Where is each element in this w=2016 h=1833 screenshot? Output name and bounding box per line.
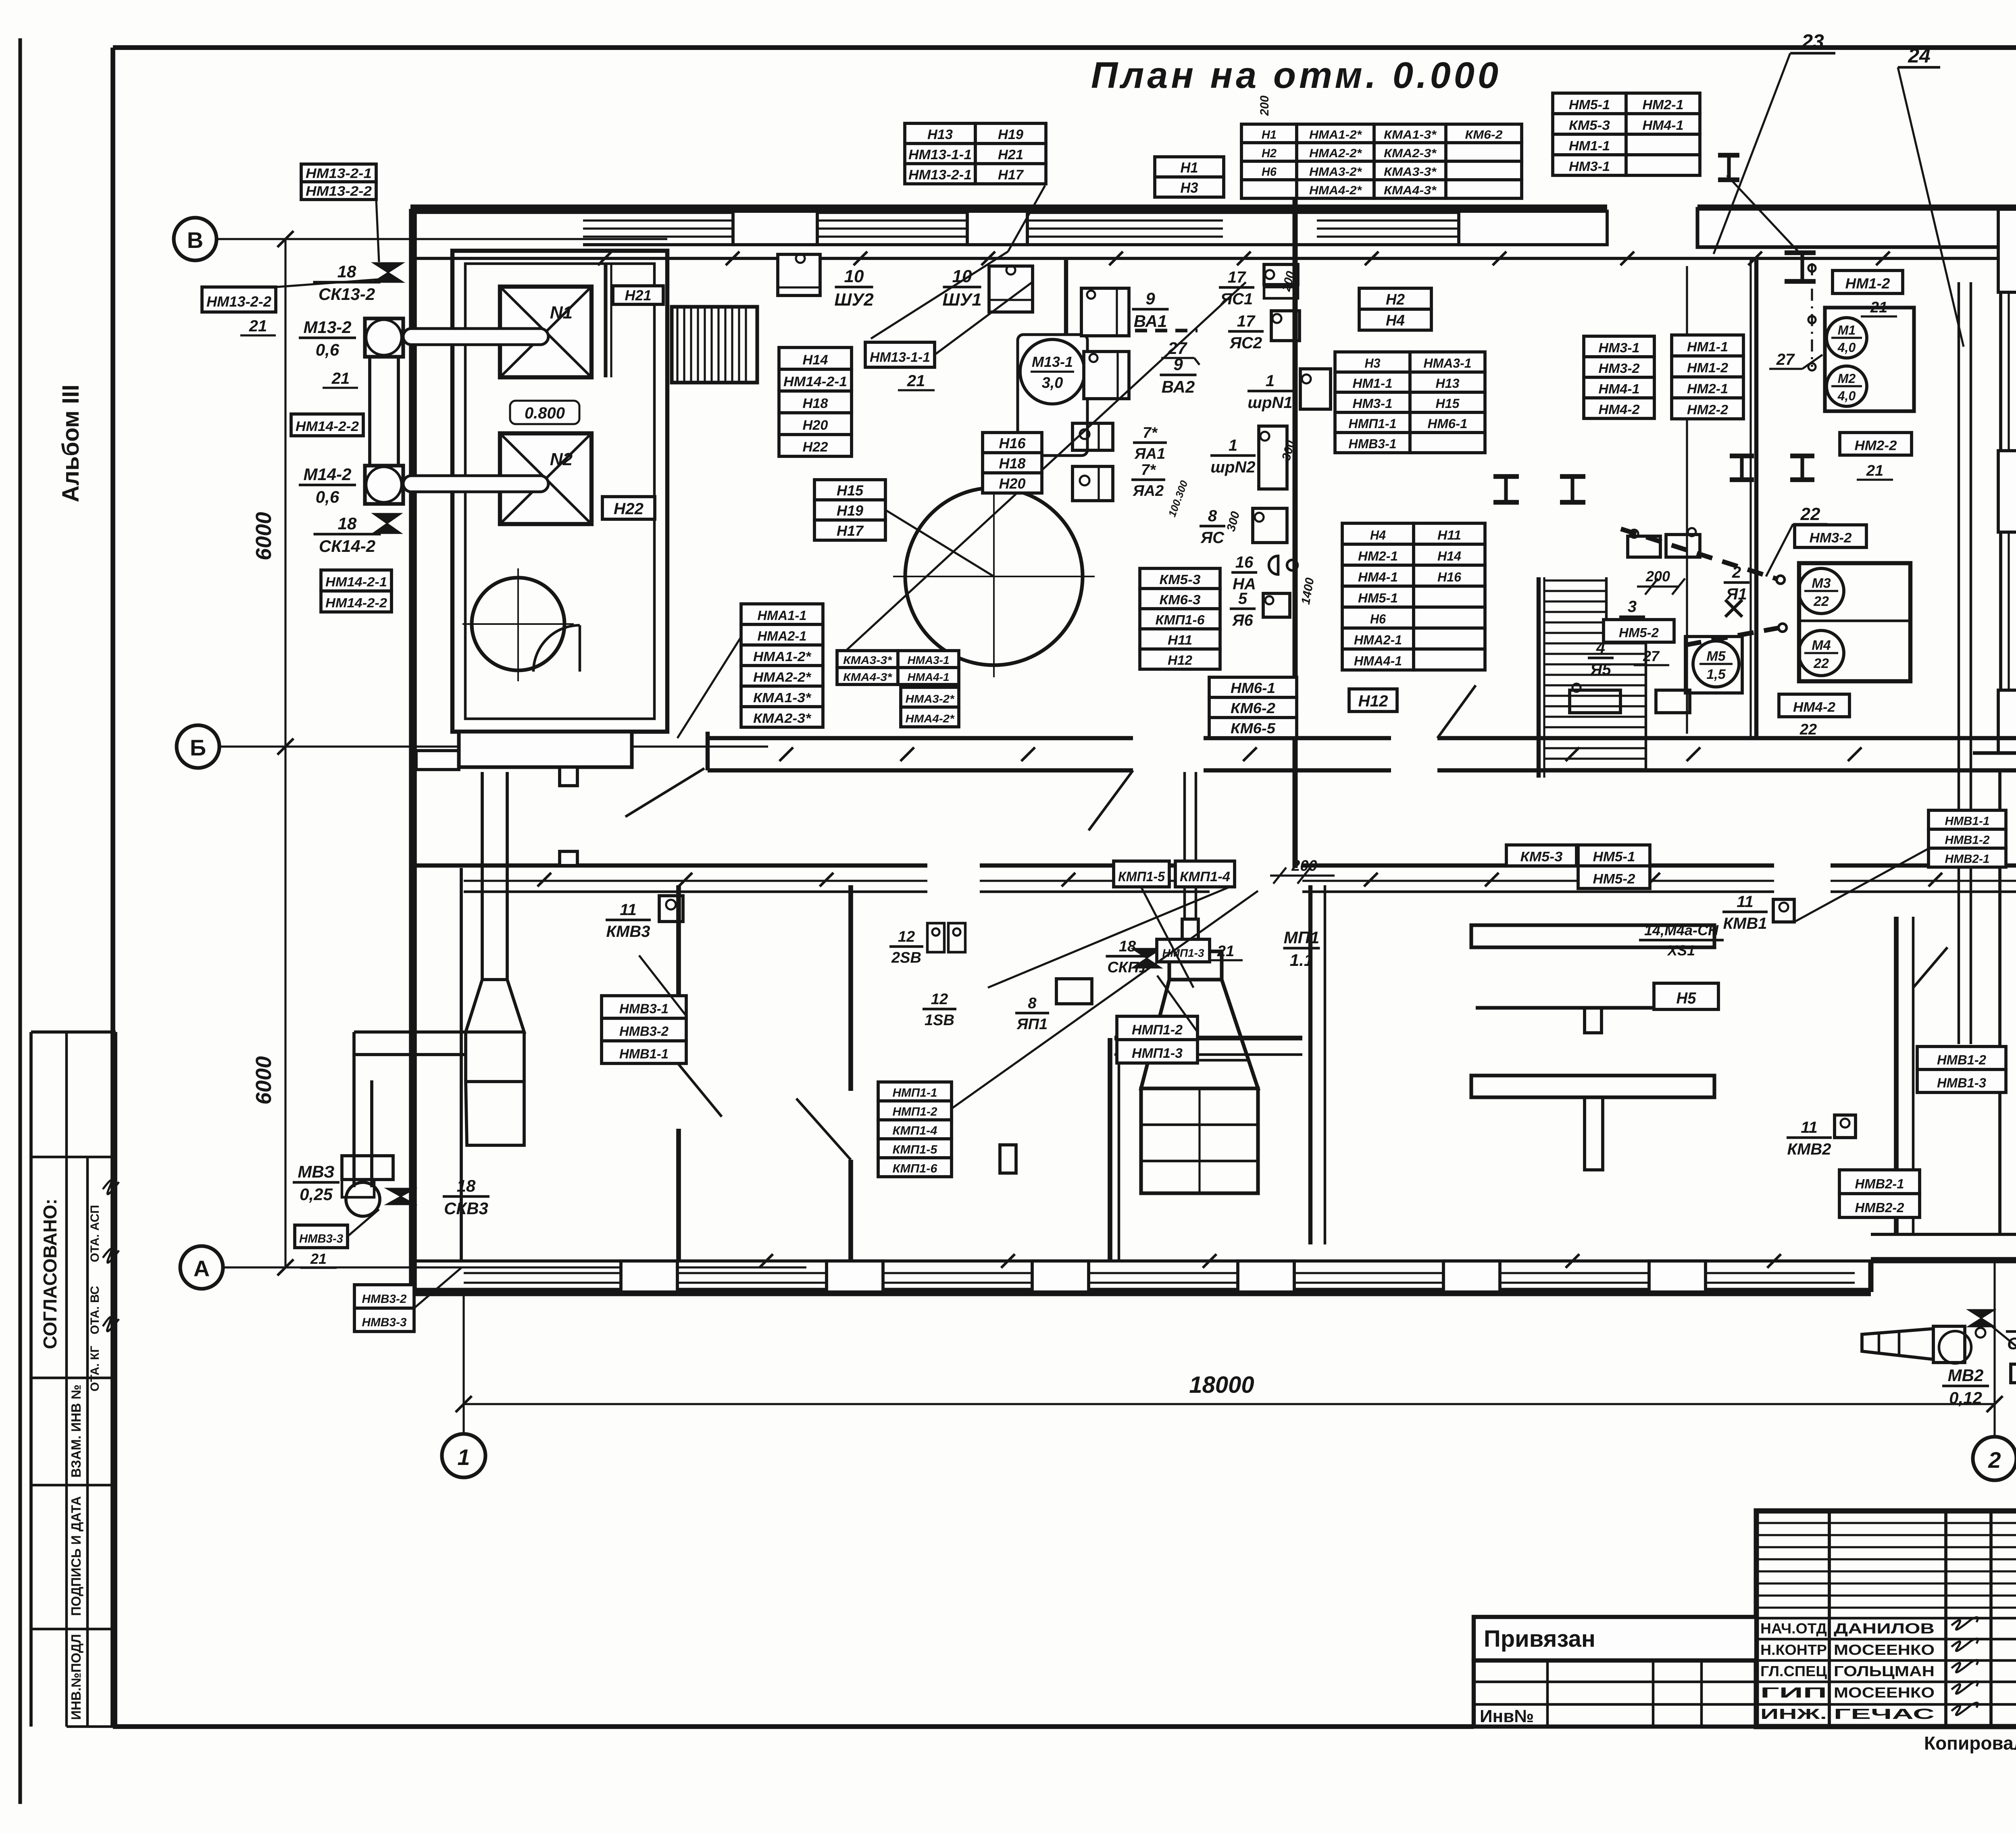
dim 200 corridor xyxy=(1270,857,1335,884)
svg-text:12: 12 xyxy=(898,928,915,945)
svg-text:М13-2: М13-2 xyxy=(303,318,351,337)
dashed cable run 2 xyxy=(1685,628,1780,645)
fraction 8/YaP1 xyxy=(1015,995,1049,1033)
building left wall xyxy=(409,209,417,1292)
fraction 11/KMV2 xyxy=(1787,1119,1832,1158)
svg-text:НМ14-2-2: НМ14-2-2 xyxy=(325,596,387,610)
label box N21 xyxy=(613,286,663,304)
rotated dim 200 a xyxy=(1258,96,1271,116)
label box N12 right xyxy=(1349,689,1397,712)
unit M1 circle xyxy=(1826,318,1867,358)
svg-text:9: 9 xyxy=(1173,355,1183,374)
leader KMP1 pair xyxy=(988,887,1230,988)
svg-text:ШУ2: ШУ2 xyxy=(834,290,874,310)
fraction 2/Ya1 xyxy=(1724,564,1749,603)
svg-text:Б: Б xyxy=(190,735,206,760)
right wall pier A xyxy=(1998,209,2016,292)
label box NMV1 group xyxy=(1929,810,2006,867)
cabinet SHU1 xyxy=(989,266,1033,312)
room wall right xyxy=(1751,260,1756,738)
vent valve SK13-2 xyxy=(373,263,403,282)
label box NM13-2-1 NM13-2-2 xyxy=(301,164,376,200)
leader NMP1 group xyxy=(952,891,1258,1109)
pit south wall band xyxy=(416,732,632,786)
svg-text:18: 18 xyxy=(457,1176,476,1195)
bottom wall pier 5 xyxy=(1443,1261,1500,1292)
vent valve SK14-2 xyxy=(373,514,401,533)
MV3 duct mid section xyxy=(466,1032,524,1082)
vent valve SKV3 xyxy=(386,1188,415,1205)
rotated dim 300 b xyxy=(1279,439,1297,462)
cabinet VA2 xyxy=(1084,352,1129,399)
svg-text:НМП1-1: НМП1-1 xyxy=(893,1086,937,1100)
fraction 12/1SV xyxy=(923,991,956,1029)
svg-text:НМ5-1: НМ5-1 xyxy=(1358,591,1398,605)
cable drop M1 M2 xyxy=(1808,263,1816,370)
fraction 16/NA xyxy=(1231,553,1257,593)
svg-text:КМ5-3: КМ5-3 xyxy=(1160,572,1201,587)
MV2 duct xyxy=(1862,1329,1933,1359)
signature scribbles left xyxy=(103,1180,119,1332)
svg-text:Н16: Н16 xyxy=(1437,570,1461,585)
svg-text:НМП1-3: НМП1-3 xyxy=(1132,1046,1183,1061)
rotated dim 100 xyxy=(1166,479,1190,518)
box Ya1 b xyxy=(1666,528,1700,557)
bottom wall pier 2 xyxy=(827,1261,883,1292)
svg-text:НМА3-2*: НМА3-2* xyxy=(1309,165,1362,179)
axis A line xyxy=(223,1266,806,1268)
fraction XS1 xyxy=(1639,922,1724,959)
corridor upper wall ticks xyxy=(779,747,1862,761)
fraction 17/YaS1 xyxy=(1219,268,1254,308)
unit M5 circle xyxy=(1693,641,1739,687)
svg-text:НМВ2-2: НМВ2-2 xyxy=(1855,1200,1905,1215)
top wall pier 2 xyxy=(967,211,1027,245)
vent valve SKV2 xyxy=(1968,1310,1995,1327)
svg-text:22: 22 xyxy=(1813,656,1829,671)
svg-text:КМА3-3*: КМА3-3* xyxy=(1384,165,1437,179)
pit room outline xyxy=(452,251,667,732)
label 23 leader xyxy=(1714,30,1835,254)
svg-text:12: 12 xyxy=(931,991,948,1008)
label 21 under NM1-2 xyxy=(1861,299,1897,316)
svg-text:НМА4-1: НМА4-1 xyxy=(1354,654,1402,668)
svg-text:Н15: Н15 xyxy=(837,482,864,499)
label box N5 xyxy=(1654,983,1718,1009)
svg-text:1: 1 xyxy=(457,1444,470,1470)
svg-text:НМ13-1-1: НМ13-1-1 xyxy=(908,147,972,162)
svg-text:8: 8 xyxy=(1208,507,1217,525)
svg-text:М5: М5 xyxy=(1706,649,1726,664)
svg-text:4,0: 4,0 xyxy=(1837,389,1856,403)
svg-text:НМП1-3: НМП1-3 xyxy=(1162,947,1204,959)
label box NMA3-2 xyxy=(901,687,959,727)
label box NM14-2-1 NM14-2-2 xyxy=(321,570,392,612)
svg-text:Н22: Н22 xyxy=(803,439,828,455)
partition VA room xyxy=(1064,260,1068,418)
svg-text:Я1: Я1 xyxy=(1726,585,1747,603)
section I mark top xyxy=(1718,155,1739,180)
bottom wall pier 1 xyxy=(621,1261,677,1292)
svg-text:НМ5-2: НМ5-2 xyxy=(1593,872,1635,887)
MV3 duct bell xyxy=(466,980,524,1032)
rotated dim 200 b xyxy=(1279,270,1297,293)
svg-text:11: 11 xyxy=(620,901,637,919)
svg-text:НМА3-1: НМА3-1 xyxy=(908,654,950,666)
svg-text:КМА1-3*: КМА1-3* xyxy=(1384,128,1437,141)
svg-text:ОТА. ВС: ОТА. ВС xyxy=(88,1286,102,1334)
top wall right block xyxy=(1697,209,2016,247)
svg-text:КМВ2: КМВ2 xyxy=(1787,1140,1831,1158)
svg-text:НМП1-2: НМП1-2 xyxy=(1132,1022,1183,1038)
pipe to N1 xyxy=(403,329,548,345)
fraction 4/Ya5 xyxy=(1588,639,1614,678)
symbol NA xyxy=(1269,556,1297,574)
corridor door leaf 2 xyxy=(1437,685,1476,738)
label table N3 NMA3-1 xyxy=(1335,352,1485,453)
unit M2 circle xyxy=(1826,366,1867,406)
label 21 under NM13-1-1 xyxy=(898,372,935,390)
svg-text:Н14: Н14 xyxy=(803,352,828,368)
svg-text:200: 200 xyxy=(1291,857,1317,874)
svg-text:СОГЛАСОВАНО:: СОГЛАСОВАНО: xyxy=(40,1198,60,1349)
svg-text:СК14-2: СК14-2 xyxy=(319,537,375,556)
fraction 8/YaS xyxy=(1200,507,1225,547)
svg-text:Н18: Н18 xyxy=(803,396,828,411)
box YaP1 xyxy=(1056,979,1092,1004)
svg-text:18: 18 xyxy=(338,514,357,533)
ota vs rotated xyxy=(88,1286,102,1334)
svg-text:Н20: Н20 xyxy=(999,475,1026,492)
svg-text:КМ6-2: КМ6-2 xyxy=(1231,700,1275,716)
MV3 duct riser corridor xyxy=(482,772,507,980)
label 21 mid left xyxy=(323,370,358,388)
right wall window lines xyxy=(2009,292,2016,690)
unit N1 crossed box xyxy=(500,287,591,377)
svg-text:21: 21 xyxy=(310,1250,327,1267)
svg-text:18: 18 xyxy=(1119,938,1136,955)
label table NM5-1 NM2-1 xyxy=(1553,93,1700,175)
svg-text:НМ1-1: НМ1-1 xyxy=(1353,376,1393,391)
fraction M14-2/0.6 xyxy=(299,465,356,506)
svg-text:17: 17 xyxy=(1237,312,1256,330)
label table N4 N11 group xyxy=(1342,523,1485,670)
svg-text:НМ3-2: НМ3-2 xyxy=(1599,361,1640,376)
svg-text:Н22: Н22 xyxy=(614,500,644,518)
svg-text:НМА2-2*: НМА2-2* xyxy=(753,670,812,685)
album label xyxy=(58,385,84,502)
fraction 18/SKV3 xyxy=(443,1176,489,1218)
svg-text:Я6: Я6 xyxy=(1232,612,1253,629)
box YaS2 xyxy=(1271,311,1300,341)
svg-text:НМ3-2: НМ3-2 xyxy=(1810,531,1852,546)
svg-text:НМА3-1: НМА3-1 xyxy=(1424,356,1472,370)
svg-text:НМ4-1: НМ4-1 xyxy=(1599,381,1640,396)
svg-text:КМ5-3: КМ5-3 xyxy=(1520,849,1563,865)
axis 1 line xyxy=(462,1292,464,1434)
box YaA2 xyxy=(1073,466,1113,501)
vent valve SKP1 xyxy=(1132,949,1161,968)
svg-text:Н3: Н3 xyxy=(1365,356,1381,370)
svg-text:Н16: Н16 xyxy=(999,435,1026,451)
label box KM5-3 group xyxy=(1140,568,1220,669)
section line I vertical xyxy=(1686,266,1688,734)
svg-text:М13-1: М13-1 xyxy=(1032,354,1073,370)
fraction 9/VA1 xyxy=(1132,289,1169,331)
title block left privyazan xyxy=(1474,1617,1756,1660)
svg-text:НМВ3-2: НМВ3-2 xyxy=(619,1024,669,1039)
label box NM13-2-2 xyxy=(202,287,276,312)
leader lines misc xyxy=(639,175,1798,1032)
svg-text:Н2: Н2 xyxy=(1386,291,1405,308)
svg-text:М2: М2 xyxy=(1838,371,1856,386)
svg-text:НМ2-2: НМ2-2 xyxy=(1855,438,1897,454)
svg-text:М1: М1 xyxy=(1838,323,1856,337)
inv podl rotated xyxy=(69,1634,83,1720)
svg-text:1SВ: 1SВ xyxy=(925,1012,954,1029)
tank circle small xyxy=(462,568,574,681)
svg-text:НМВ3-1: НМВ3-1 xyxy=(619,1001,669,1016)
svg-text:НМВ1-1: НМВ1-1 xyxy=(1945,815,1990,828)
leader KMV1 xyxy=(1794,849,1929,922)
svg-text:21: 21 xyxy=(1866,462,1883,479)
label box KMP1-4 xyxy=(1175,861,1235,887)
svg-text:НМ6-1: НМ6-1 xyxy=(1428,416,1468,431)
fraction 18/SK13-2 xyxy=(313,262,381,304)
door leaf partition x1683 xyxy=(679,1064,722,1117)
svg-text:НМА1-1: НМА1-1 xyxy=(758,608,807,623)
svg-text:ЯС2: ЯС2 xyxy=(1229,334,1262,352)
box KMV3 xyxy=(659,896,683,922)
svg-text:НМ5-1: НМ5-1 xyxy=(1569,97,1610,112)
rotated dim 1400 xyxy=(1299,576,1317,605)
pipe vertical between pumps xyxy=(370,357,398,466)
svg-text:Н6: Н6 xyxy=(1370,612,1386,626)
pit divider wall xyxy=(606,264,611,377)
svg-text:6000: 6000 xyxy=(252,512,276,560)
svg-text:ГЛ.СПЕЦ: ГЛ.СПЕЦ xyxy=(1760,1663,1827,1679)
unit M5 box xyxy=(1685,637,1742,693)
svg-text:НМ2-1: НМ2-1 xyxy=(1643,97,1684,112)
unit M3 M4 box xyxy=(1799,563,1910,681)
bottom wall ticks xyxy=(759,1254,1781,1268)
svg-text:НМА1-2*: НМА1-2* xyxy=(1309,128,1362,141)
label box NM3-2 stair xyxy=(1795,525,1866,547)
svg-text:НМ4-1: НМ4-1 xyxy=(1643,118,1684,133)
svg-text:НМВ1-2: НМВ1-2 xyxy=(1945,834,1990,847)
box KMV2 xyxy=(1835,1115,1856,1138)
svg-text:23: 23 xyxy=(1801,30,1824,53)
box Ya1 a xyxy=(1628,530,1660,557)
box Ya6 xyxy=(1263,593,1290,617)
axis B circle xyxy=(174,218,217,260)
bottom wing top wall xyxy=(416,851,2016,892)
label box NMV2-1 NMV2-2 xyxy=(1839,1170,1920,1217)
svg-text:НМ5-1: НМ5-1 xyxy=(1593,849,1635,865)
svg-text:2: 2 xyxy=(1988,1447,2001,1473)
svg-text:1.1: 1.1 xyxy=(1290,951,1313,970)
svg-text:НМВ1-3: НМВ1-3 xyxy=(1937,1075,1986,1090)
svg-text:КМ6-3: КМ6-3 xyxy=(1160,592,1201,607)
MV3 funnel lower xyxy=(466,1082,524,1145)
label box NMA group 6 xyxy=(741,604,823,727)
label box NM14-2-2 xyxy=(291,414,363,436)
ota asp rotated xyxy=(88,1205,102,1262)
svg-text:Н21: Н21 xyxy=(625,287,652,304)
svg-text:7*: 7* xyxy=(1143,424,1158,441)
svg-text:МВЗ: МВЗ xyxy=(298,1162,334,1181)
svg-text:21: 21 xyxy=(331,370,350,387)
svg-text:Н18: Н18 xyxy=(999,455,1026,472)
svg-text:Н2: Н2 xyxy=(1262,147,1277,160)
cabinet SHU2 xyxy=(778,254,820,295)
svg-text:10: 10 xyxy=(844,266,864,286)
svg-text:16: 16 xyxy=(1235,553,1254,571)
fraction 9/VA2 xyxy=(1160,355,1197,396)
svg-text:N2: N2 xyxy=(550,449,573,469)
MP1 funnel xyxy=(1141,980,1258,1088)
fraction 3/Ya3 xyxy=(1619,598,1645,637)
svg-text:НМВ3-3: НМВ3-3 xyxy=(362,1316,407,1329)
svg-text:НМ2-1: НМ2-1 xyxy=(1687,381,1728,396)
svg-text:НМ3-1: НМ3-1 xyxy=(1353,396,1393,411)
partition x2753 xyxy=(1110,1038,1119,1261)
svg-text:ШУ1: ШУ1 xyxy=(942,290,981,310)
MV3 duct vertical xyxy=(354,1080,372,1187)
fraction 18/SKV2 xyxy=(2006,1311,2016,1353)
svg-text:14,М4а-СН: 14,М4а-СН xyxy=(1644,922,1719,938)
svg-text:Н11: Н11 xyxy=(1168,632,1192,647)
corridor upper wall xyxy=(708,732,2016,770)
svg-text:0,6: 0,6 xyxy=(316,340,339,359)
dim line 18000 xyxy=(456,1372,2003,1412)
svg-text:7*: 7* xyxy=(1141,462,1156,479)
svg-text:ЯА2: ЯА2 xyxy=(1133,483,1164,499)
label box N16 N18 N20 xyxy=(983,433,1042,493)
label box NM1-2 xyxy=(1833,270,1903,293)
svg-text:НМА4-2*: НМА4-2* xyxy=(906,712,955,725)
svg-text:2: 2 xyxy=(1732,564,1741,581)
fraction 5/Ya6 xyxy=(1230,590,1256,629)
svg-text:ИНВ.№ПОДЛ: ИНВ.№ПОДЛ xyxy=(69,1634,83,1720)
axis vertical dim line xyxy=(277,231,294,1275)
bottom wall pier 6 xyxy=(1649,1261,1706,1292)
top wing inner face line xyxy=(416,257,2016,260)
cable riser vertical xyxy=(1959,282,1971,1044)
title block grid xyxy=(1756,1511,2016,1727)
fraction 18/SKP1 xyxy=(1106,938,1149,976)
label box N14 group xyxy=(779,347,852,456)
box YaS wall xyxy=(1253,508,1287,543)
main cross wall heavy xyxy=(1293,192,1298,868)
svg-text:ИНЖ.: ИНЖ. xyxy=(1760,1706,1827,1722)
label box N15 N19 N17 xyxy=(814,480,885,540)
vzam inv rotated xyxy=(69,1384,83,1477)
label box NMP1-2 NMP1-3 xyxy=(1117,1016,1198,1063)
svg-text:Инв№: Инв№ xyxy=(1480,1706,1534,1726)
cross wall lower double xyxy=(1310,885,1325,1244)
kink circles xyxy=(1776,576,1787,632)
label table NMA1-2 4col xyxy=(1241,124,1522,198)
soglasovano rotated text xyxy=(40,1198,60,1349)
svg-text:ОТА. КГ: ОТА. КГ xyxy=(88,1346,102,1391)
svg-text:КМВ3: КМВ3 xyxy=(606,923,650,940)
label table N13 N19 group xyxy=(905,123,1046,184)
svg-text:НМА2-1: НМА2-1 xyxy=(1354,633,1402,647)
label box NM13-1-1 xyxy=(865,342,935,367)
svg-text:ГЕЧАС: ГЕЧАС xyxy=(1834,1706,1935,1722)
svg-text:18: 18 xyxy=(337,262,356,281)
svg-text:22: 22 xyxy=(1800,504,1820,524)
svg-text:НМ13-2-2: НМ13-2-2 xyxy=(206,293,271,310)
label box NM6-1 group xyxy=(1209,677,1297,738)
label box NMP1 group5 xyxy=(878,1082,952,1177)
svg-text:НМ4-2: НМ4-2 xyxy=(1793,700,1835,715)
title block left subtable xyxy=(1474,1660,1756,1727)
fraction 11/KMV3 xyxy=(606,901,651,940)
svg-text:Н12: Н12 xyxy=(1358,693,1388,710)
svg-text:НМВ2-1: НМВ2-1 xyxy=(1945,853,1990,866)
axis B circle xyxy=(177,725,219,768)
svg-text:Н11: Н11 xyxy=(1437,528,1461,543)
top wall pier 1 xyxy=(733,211,817,245)
title block staff names xyxy=(1760,1617,1978,1722)
unit N2 crossed box xyxy=(500,433,591,524)
unit M13-1 cabinet xyxy=(1018,335,1087,456)
svg-text:НМ14-2-1: НМ14-2-1 xyxy=(325,575,387,589)
svg-text:КМП1-5: КМП1-5 xyxy=(893,1143,938,1157)
bench T room3 xyxy=(1471,1076,1714,1170)
svg-text:4,0: 4,0 xyxy=(1837,340,1856,355)
box YaA1 xyxy=(1073,423,1113,450)
svg-text:НМ13-1-1: НМ13-1-1 xyxy=(870,350,930,365)
svg-text:НМ5-2: НМ5-2 xyxy=(1619,626,1659,640)
axis 1 circle xyxy=(442,1434,485,1477)
svg-text:НМ13-2-1: НМ13-2-1 xyxy=(306,166,372,181)
upper stairs xyxy=(672,307,757,383)
label box N1 N3 xyxy=(1155,157,1224,197)
MV3 fan xyxy=(342,1156,393,1216)
axis 2 circle xyxy=(1973,1437,2016,1480)
svg-text:24: 24 xyxy=(1908,44,1931,67)
fraction 10/SHU2 xyxy=(834,266,874,310)
podpis data rotated xyxy=(69,1496,83,1616)
label box NM5-2 corridor xyxy=(1578,866,1650,888)
svg-text:М14-2: М14-2 xyxy=(303,465,351,484)
box near M5 xyxy=(1656,690,1690,713)
svg-text:Н20: Н20 xyxy=(803,418,828,433)
svg-text:Альбом III: Альбом III xyxy=(58,385,84,502)
svg-text:Н1: Н1 xyxy=(1262,128,1277,141)
bottom wall outer xyxy=(413,1260,2016,1292)
svg-text:МП1: МП1 xyxy=(1284,928,1320,947)
label box NM5-1 corridor xyxy=(1578,845,1650,866)
svg-text:НМВ1-2: НМВ1-2 xyxy=(1937,1052,1987,1067)
leader NMV2 box xyxy=(1992,1260,2016,1363)
svg-text:Н12: Н12 xyxy=(1168,653,1193,668)
svg-text:27: 27 xyxy=(1643,648,1660,664)
svg-text:Н4: Н4 xyxy=(1386,312,1405,329)
svg-text:НМ1-2: НМ1-2 xyxy=(1845,275,1890,291)
svg-text:0,12: 0,12 xyxy=(1949,1388,1982,1407)
svg-text:НМ1-1: НМ1-1 xyxy=(1687,339,1728,354)
svg-text:ГИП: ГИП xyxy=(1760,1684,1827,1701)
label 21 under NM13-2-2 xyxy=(240,278,395,335)
svg-text:ЯА1: ЯА1 xyxy=(1134,445,1165,462)
label table KMA3-3 xyxy=(837,651,959,685)
svg-text:СК13-2: СК13-2 xyxy=(319,285,375,304)
svg-text:шрN2: шрN2 xyxy=(1210,458,1255,476)
